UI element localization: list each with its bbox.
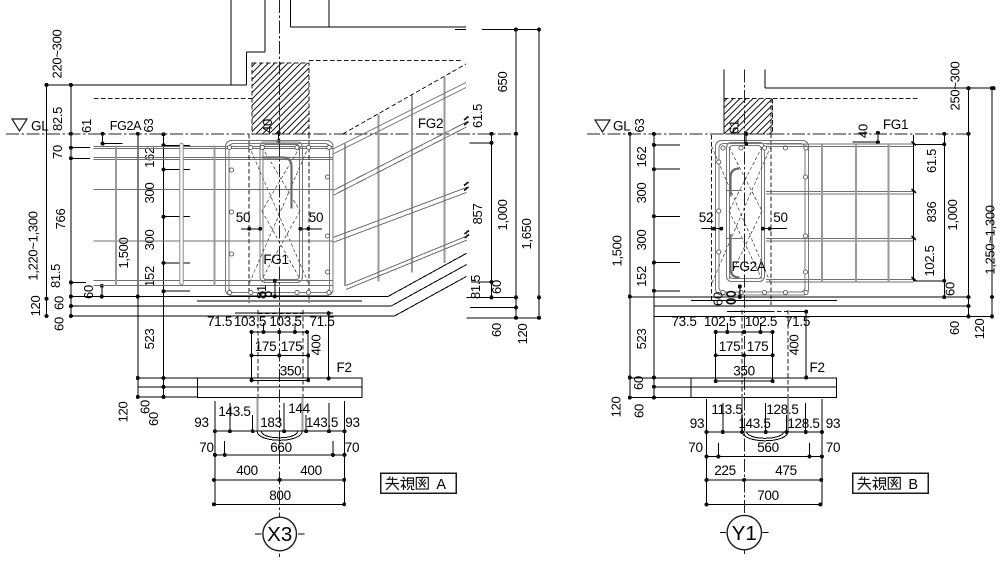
left view: FG2A bottom bars	[93, 280, 333, 282]
left view: center line X3	[279, 0, 281, 557]
right view: center line Y1	[743, 70, 745, 556]
left view: grid bubble X3	[263, 517, 297, 551]
left view: dim row 71.5/103.5/103.5/71.5	[252, 331, 307, 333]
right view: bottom bar end ellipses	[727, 292, 735, 297]
right view: dim 52 (cover left)	[702, 228, 723, 230]
right view: dim 50 (cover right)	[763, 228, 787, 230]
svg-text:650: 650	[495, 72, 510, 93]
right view: dim 60 (cage bottom to lean conc.)	[739, 287, 741, 297]
right view: ground line A	[630, 296, 969, 298]
right view: FG1 end stirrup (outer cage)	[716, 141, 809, 296]
svg-text:1,650: 1,650	[519, 218, 534, 249]
left view: hatched wall section	[252, 63, 309, 134]
svg-text:766: 766	[53, 209, 68, 230]
left view: dim chain 220~300/82.5/70/766/81.5/60/60	[70, 85, 72, 316]
left view: bottom bar end ellipses	[260, 292, 266, 296]
svg-text:1,250~1,300: 1,250~1,300	[983, 205, 998, 274]
left view: FG2 end stirrup (outer cage)	[226, 141, 334, 296]
left view: dim 40 (face to cage top)	[278, 133, 280, 141]
svg-text:120: 120	[972, 319, 987, 340]
svg-text:A: A	[436, 477, 446, 493]
svg-text:F2: F2	[810, 360, 825, 375]
right view: hidden slab line (dashed)	[724, 98, 920, 100]
right view: dim row 175/175	[716, 354, 773, 356]
left view: concrete face dashed lines	[248, 134, 250, 303]
svg-text:120: 120	[609, 397, 624, 418]
left view: lean concrete under beam	[197, 300, 362, 302]
svg-text:144: 144	[288, 401, 310, 416]
right view: rebar section circles	[721, 146, 725, 150]
svg-text:400: 400	[236, 463, 258, 478]
right view: dim row 700	[707, 504, 821, 506]
left view: dim chain 61.5/857/81.5	[491, 134, 493, 298]
svg-text:350: 350	[280, 364, 302, 379]
svg-text:143.5: 143.5	[218, 404, 250, 419]
svg-text:102.5: 102.5	[704, 314, 736, 329]
right view: dim row 350	[716, 380, 773, 382]
svg-text:152: 152	[142, 266, 157, 287]
right view: FG1 top bars	[766, 143, 914, 145]
right view: wall outline above GL	[723, 70, 725, 134]
svg-text:152: 152	[634, 266, 649, 287]
left view: dim row 175/175	[252, 355, 309, 357]
svg-text:350: 350	[733, 364, 755, 379]
svg-text:81.5: 81.5	[48, 264, 63, 288]
right view: GL symbol	[595, 120, 610, 132]
svg-text:93: 93	[345, 415, 359, 430]
svg-text:400: 400	[787, 335, 802, 356]
svg-text:183: 183	[260, 415, 282, 430]
right view: FG1 upper middle bars	[766, 191, 914, 193]
left view: footing outline	[197, 378, 362, 397]
kanji 図	[416, 478, 428, 490]
svg-text:B: B	[908, 477, 917, 493]
svg-text:143.5: 143.5	[306, 415, 338, 430]
svg-text:300: 300	[634, 230, 649, 251]
svg-text:103.5: 103.5	[234, 314, 266, 329]
left view: FG2 top bars (perspective)	[333, 83, 466, 150]
left view: ground line A	[71, 296, 388, 298]
right view: ground line C	[654, 315, 992, 317]
svg-text:300: 300	[634, 183, 649, 204]
svg-text:70: 70	[199, 440, 213, 455]
svg-text:400: 400	[300, 463, 322, 478]
left view: ground line C	[71, 315, 395, 317]
svg-text:60: 60	[489, 280, 504, 294]
right view: cross bracing dashed X	[729, 147, 762, 211]
svg-text:60: 60	[632, 404, 647, 418]
svg-text:70: 70	[688, 440, 702, 455]
left view: FG1 stirrup (inner cage)	[260, 142, 302, 282]
svg-text:FG1: FG1	[883, 117, 908, 132]
svg-text:128.5: 128.5	[766, 402, 798, 417]
right view: bar cut line	[913, 135, 915, 281]
svg-text:FG2A: FG2A	[731, 259, 765, 274]
svg-text:300: 300	[142, 183, 157, 204]
right view: pile dashed edges	[741, 310, 743, 432]
right view: GL line	[587, 133, 969, 135]
right view: dim chain 63/162/300/300/152/523/60/60	[653, 134, 655, 398]
svg-text:103.5: 103.5	[269, 314, 301, 329]
svg-text:60: 60	[138, 400, 153, 414]
svg-text:50: 50	[773, 210, 787, 225]
svg-text:FG2A: FG2A	[110, 119, 142, 133]
left view: pile dashed edges	[257, 310, 259, 431]
svg-text:40: 40	[260, 119, 275, 133]
left view: dim 81 (stirrup to bottom)	[274, 281, 276, 297]
left view: dim row 93/143.5/183/144/143.5/93	[215, 430, 345, 432]
svg-text:FG2: FG2	[418, 116, 443, 131]
svg-text:71.5: 71.5	[207, 314, 232, 329]
svg-text:X3: X3	[267, 523, 292, 546]
svg-text:GL: GL	[613, 119, 631, 134]
right view: mid bar stubs in cage	[726, 190, 742, 192]
right view: dim 61 (GL to top bar)	[745, 134, 747, 144]
left view: FG2A top bars	[93, 145, 333, 147]
right view: FG1 lower middle bars	[766, 238, 914, 240]
right view: dim 400 vertical	[805, 312, 807, 378]
svg-text:102.5: 102.5	[922, 245, 937, 276]
left view: GL line	[6, 133, 517, 135]
right view: pile edges below footing	[741, 397, 743, 432]
svg-text:120: 120	[515, 324, 530, 345]
svg-text:857: 857	[470, 204, 485, 225]
left view: wall outline above GL	[230, 0, 232, 85]
right view: ground line B	[654, 305, 969, 307]
right view: concrete face dashed lines	[711, 135, 713, 302]
svg-text:175: 175	[255, 339, 277, 354]
svg-text:60: 60	[146, 412, 161, 426]
left view: extension lines below footing	[214, 401, 216, 431]
svg-text:220~300: 220~300	[50, 29, 65, 78]
svg-text:61.5: 61.5	[470, 104, 485, 128]
svg-text:836: 836	[924, 202, 939, 223]
svg-text:71.5: 71.5	[309, 314, 334, 329]
left view: FG2 lower middle bars	[333, 188, 467, 238]
left view: dashed top edge of FG2 (perspective)	[343, 64, 466, 134]
right view: dim chain 1,250~1,300/120	[991, 88, 993, 316]
svg-text:120: 120	[28, 296, 43, 317]
svg-text:50: 50	[236, 210, 250, 225]
svg-text:175: 175	[281, 339, 303, 354]
svg-text:93: 93	[690, 416, 704, 431]
svg-text:523: 523	[142, 329, 157, 350]
svg-text:113.5: 113.5	[711, 402, 742, 417]
svg-text:143.5: 143.5	[738, 416, 770, 431]
left view: dim chain 1,220~1,300 / 120	[46, 85, 48, 316]
left view: dim chain 1,500 / 120 footing	[137, 134, 139, 397]
svg-text:40: 40	[856, 124, 871, 138]
svg-text:81.5: 81.5	[468, 275, 483, 299]
svg-text:61: 61	[727, 120, 742, 134]
svg-text:300: 300	[142, 230, 157, 251]
svg-text:60: 60	[947, 321, 962, 335]
right view: dim row 93/113.5/143.5/128.5/128.5/93	[707, 431, 822, 433]
svg-text:660: 660	[270, 440, 292, 455]
svg-text:400: 400	[309, 335, 324, 356]
left view: title box 矢視図 A	[381, 473, 457, 493]
right view: dim chain 1,500/120	[629, 134, 631, 398]
right view: lean concrete under beam	[691, 300, 837, 302]
left view: ground line B	[71, 305, 391, 307]
left view: dim row 400/400	[214, 479, 344, 481]
svg-text:61.5: 61.5	[924, 149, 939, 173]
left view: dim 400 vertical	[328, 313, 330, 378]
svg-text:82.5: 82.5	[50, 107, 65, 131]
svg-text:60: 60	[711, 292, 726, 306]
right view: FG1 stirrups	[821, 144, 823, 282]
svg-text:1,000: 1,000	[945, 199, 960, 230]
svg-text:225: 225	[714, 463, 736, 478]
right view: grid bubble Y1	[727, 515, 761, 549]
left view: FG2 bottom bars (perspective)	[346, 236, 467, 286]
left view: dim 60 (bottom bar to lean conc.)	[101, 286, 103, 297]
svg-text:50: 50	[309, 210, 323, 225]
left view: dim 50 left (cover)	[241, 228, 261, 230]
right view: footing outline	[691, 378, 837, 397]
right view: bar hooks	[731, 169, 740, 197]
svg-text:60: 60	[52, 317, 67, 331]
left view: dim row 70/660/70	[215, 454, 345, 456]
svg-text:73.5: 73.5	[671, 314, 696, 329]
svg-text:70: 70	[826, 440, 840, 455]
right view: dim row 225/475	[707, 479, 822, 481]
svg-text:1,500: 1,500	[610, 235, 625, 266]
left view: cross bracing dashed X	[262, 147, 300, 211]
svg-text:128.5: 128.5	[787, 416, 819, 431]
svg-text:70: 70	[345, 440, 359, 455]
left view: pile edges below footing	[257, 397, 259, 431]
left view: footing top edge line	[235, 312, 333, 314]
svg-text:162: 162	[634, 147, 649, 168]
svg-text:93: 93	[194, 415, 208, 430]
right view: FG1 bottom bars	[766, 278, 914, 280]
right view: hatched wall section	[724, 99, 773, 134]
kanji 視	[401, 477, 414, 490]
left view: GL symbol	[12, 119, 27, 131]
left view: FG2A stirrups	[115, 146, 117, 287]
left view: FG2 upper middle bars	[333, 122, 467, 191]
svg-text:60: 60	[52, 296, 67, 310]
left view: column bar hook	[263, 158, 292, 209]
right view: title box 矢視図 B	[853, 473, 929, 493]
left view: dim row 350	[252, 379, 309, 381]
svg-text:FG1: FG1	[263, 252, 288, 267]
right view: dim 250~300 top ticks	[919, 87, 993, 89]
right view: FG2A stirrup (inner cage)	[727, 143, 765, 282]
svg-text:1,220~1,300: 1,220~1,300	[26, 211, 41, 280]
left view: FG2 stirrups (perspective)	[344, 144, 346, 287]
left view: top dim line 650 reference	[455, 29, 466, 31]
svg-text:93: 93	[826, 416, 840, 431]
svg-text:523: 523	[634, 329, 649, 350]
kanji 図	[888, 478, 900, 490]
svg-text:60: 60	[489, 323, 504, 337]
left view: dim chain 1,650/120	[538, 30, 540, 318]
svg-text:61: 61	[79, 119, 94, 133]
svg-text:Y1: Y1	[732, 522, 757, 545]
kanji 視	[873, 477, 886, 490]
svg-text:175: 175	[719, 339, 741, 354]
svg-text:1,000: 1,000	[495, 199, 510, 230]
left view: hidden slab line (dashed)	[94, 98, 252, 100]
left view: pile cut arc	[257, 432, 302, 441]
left view: dim 61 (GL to top bar)	[102, 134, 104, 144]
kanji 矢	[386, 477, 399, 490]
left view: rebar section circles	[227, 145, 231, 149]
right view: dim row 73.5/102.5/102.5/71.5	[716, 331, 773, 333]
right view: dim row 70/560/70	[707, 456, 822, 458]
svg-text:175: 175	[747, 339, 769, 354]
svg-text:700: 700	[757, 488, 779, 503]
svg-text:63: 63	[632, 119, 647, 133]
svg-text:52: 52	[699, 210, 713, 225]
kanji 矢	[858, 477, 871, 490]
svg-text:63: 63	[141, 119, 156, 133]
right view: extension lines below footing	[722, 403, 724, 432]
svg-text:60: 60	[943, 282, 958, 296]
left view: dim chain 650/1,000/60/60	[515, 30, 517, 318]
svg-text:102.5: 102.5	[745, 314, 777, 329]
svg-text:250~300: 250~300	[948, 61, 963, 110]
svg-text:1,500: 1,500	[116, 237, 131, 268]
svg-text:800: 800	[269, 488, 291, 503]
svg-text:70: 70	[50, 145, 65, 159]
left view: dim 50 right (cover)	[300, 228, 322, 230]
right view: dim chain 250~300/1,000/60/60	[968, 88, 970, 316]
svg-text:F2: F2	[337, 360, 352, 375]
right view: dim chain 61.5/836/102.5	[943, 134, 945, 297]
left view: dim chain 63/162/300/300/152/523/60/60	[163, 134, 165, 397]
right view: footing top edge line	[727, 311, 770, 313]
svg-text:560: 560	[757, 440, 779, 455]
right view: pile cut arc	[742, 432, 788, 441]
left view: dim row 800	[214, 503, 344, 505]
left view: FG2A middle bars	[93, 189, 333, 191]
svg-text:475: 475	[775, 463, 797, 478]
svg-text:120: 120	[116, 402, 131, 423]
right view: dim 40 (GL to cage top)	[877, 133, 879, 142]
